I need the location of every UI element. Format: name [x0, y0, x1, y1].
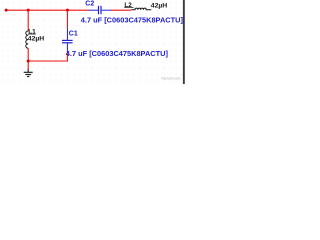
wire: node C down to C1: [66, 10, 68, 28]
wire: L1 to ground node: [27, 48, 29, 70]
inductor L1: [26, 31, 28, 48]
svg-text:C1: C1: [69, 30, 78, 37]
wire: node B down to L1: [27, 10, 29, 31]
node D (junction, bottom): [27, 60, 30, 63]
wire: top rail net N1: [5, 9, 89, 11]
capacitor C2: [89, 6, 112, 14]
wire: bottom return, node D to C1: [28, 60, 67, 62]
node B (junction, L1 tap): [27, 9, 30, 12]
node A (junction, top-left): [5, 9, 8, 12]
node C (junction, C1 tap): [66, 9, 69, 12]
inductor L2: [131, 8, 151, 10]
svg-text:Farnell.com: Farnell.com: [162, 77, 181, 81]
svg-text:4.7 uF [C0603C475K8PACTU]: 4.7 uF [C0603C475K8PACTU]: [81, 15, 184, 24]
wire: C2 to L2: [111, 9, 131, 11]
svg-text:4.7 uF [C0603C475K8PACTU]: 4.7 uF [C0603C475K8PACTU]: [66, 49, 169, 58]
ground: [24, 69, 33, 76]
wire: C1 bottom to node D: [66, 53, 68, 61]
svg-text:42µH: 42µH: [28, 35, 44, 42]
svg-text:42µH: 42µH: [151, 3, 167, 10]
capacitor C1: [62, 28, 73, 53]
svg-text:C2: C2: [85, 1, 94, 8]
